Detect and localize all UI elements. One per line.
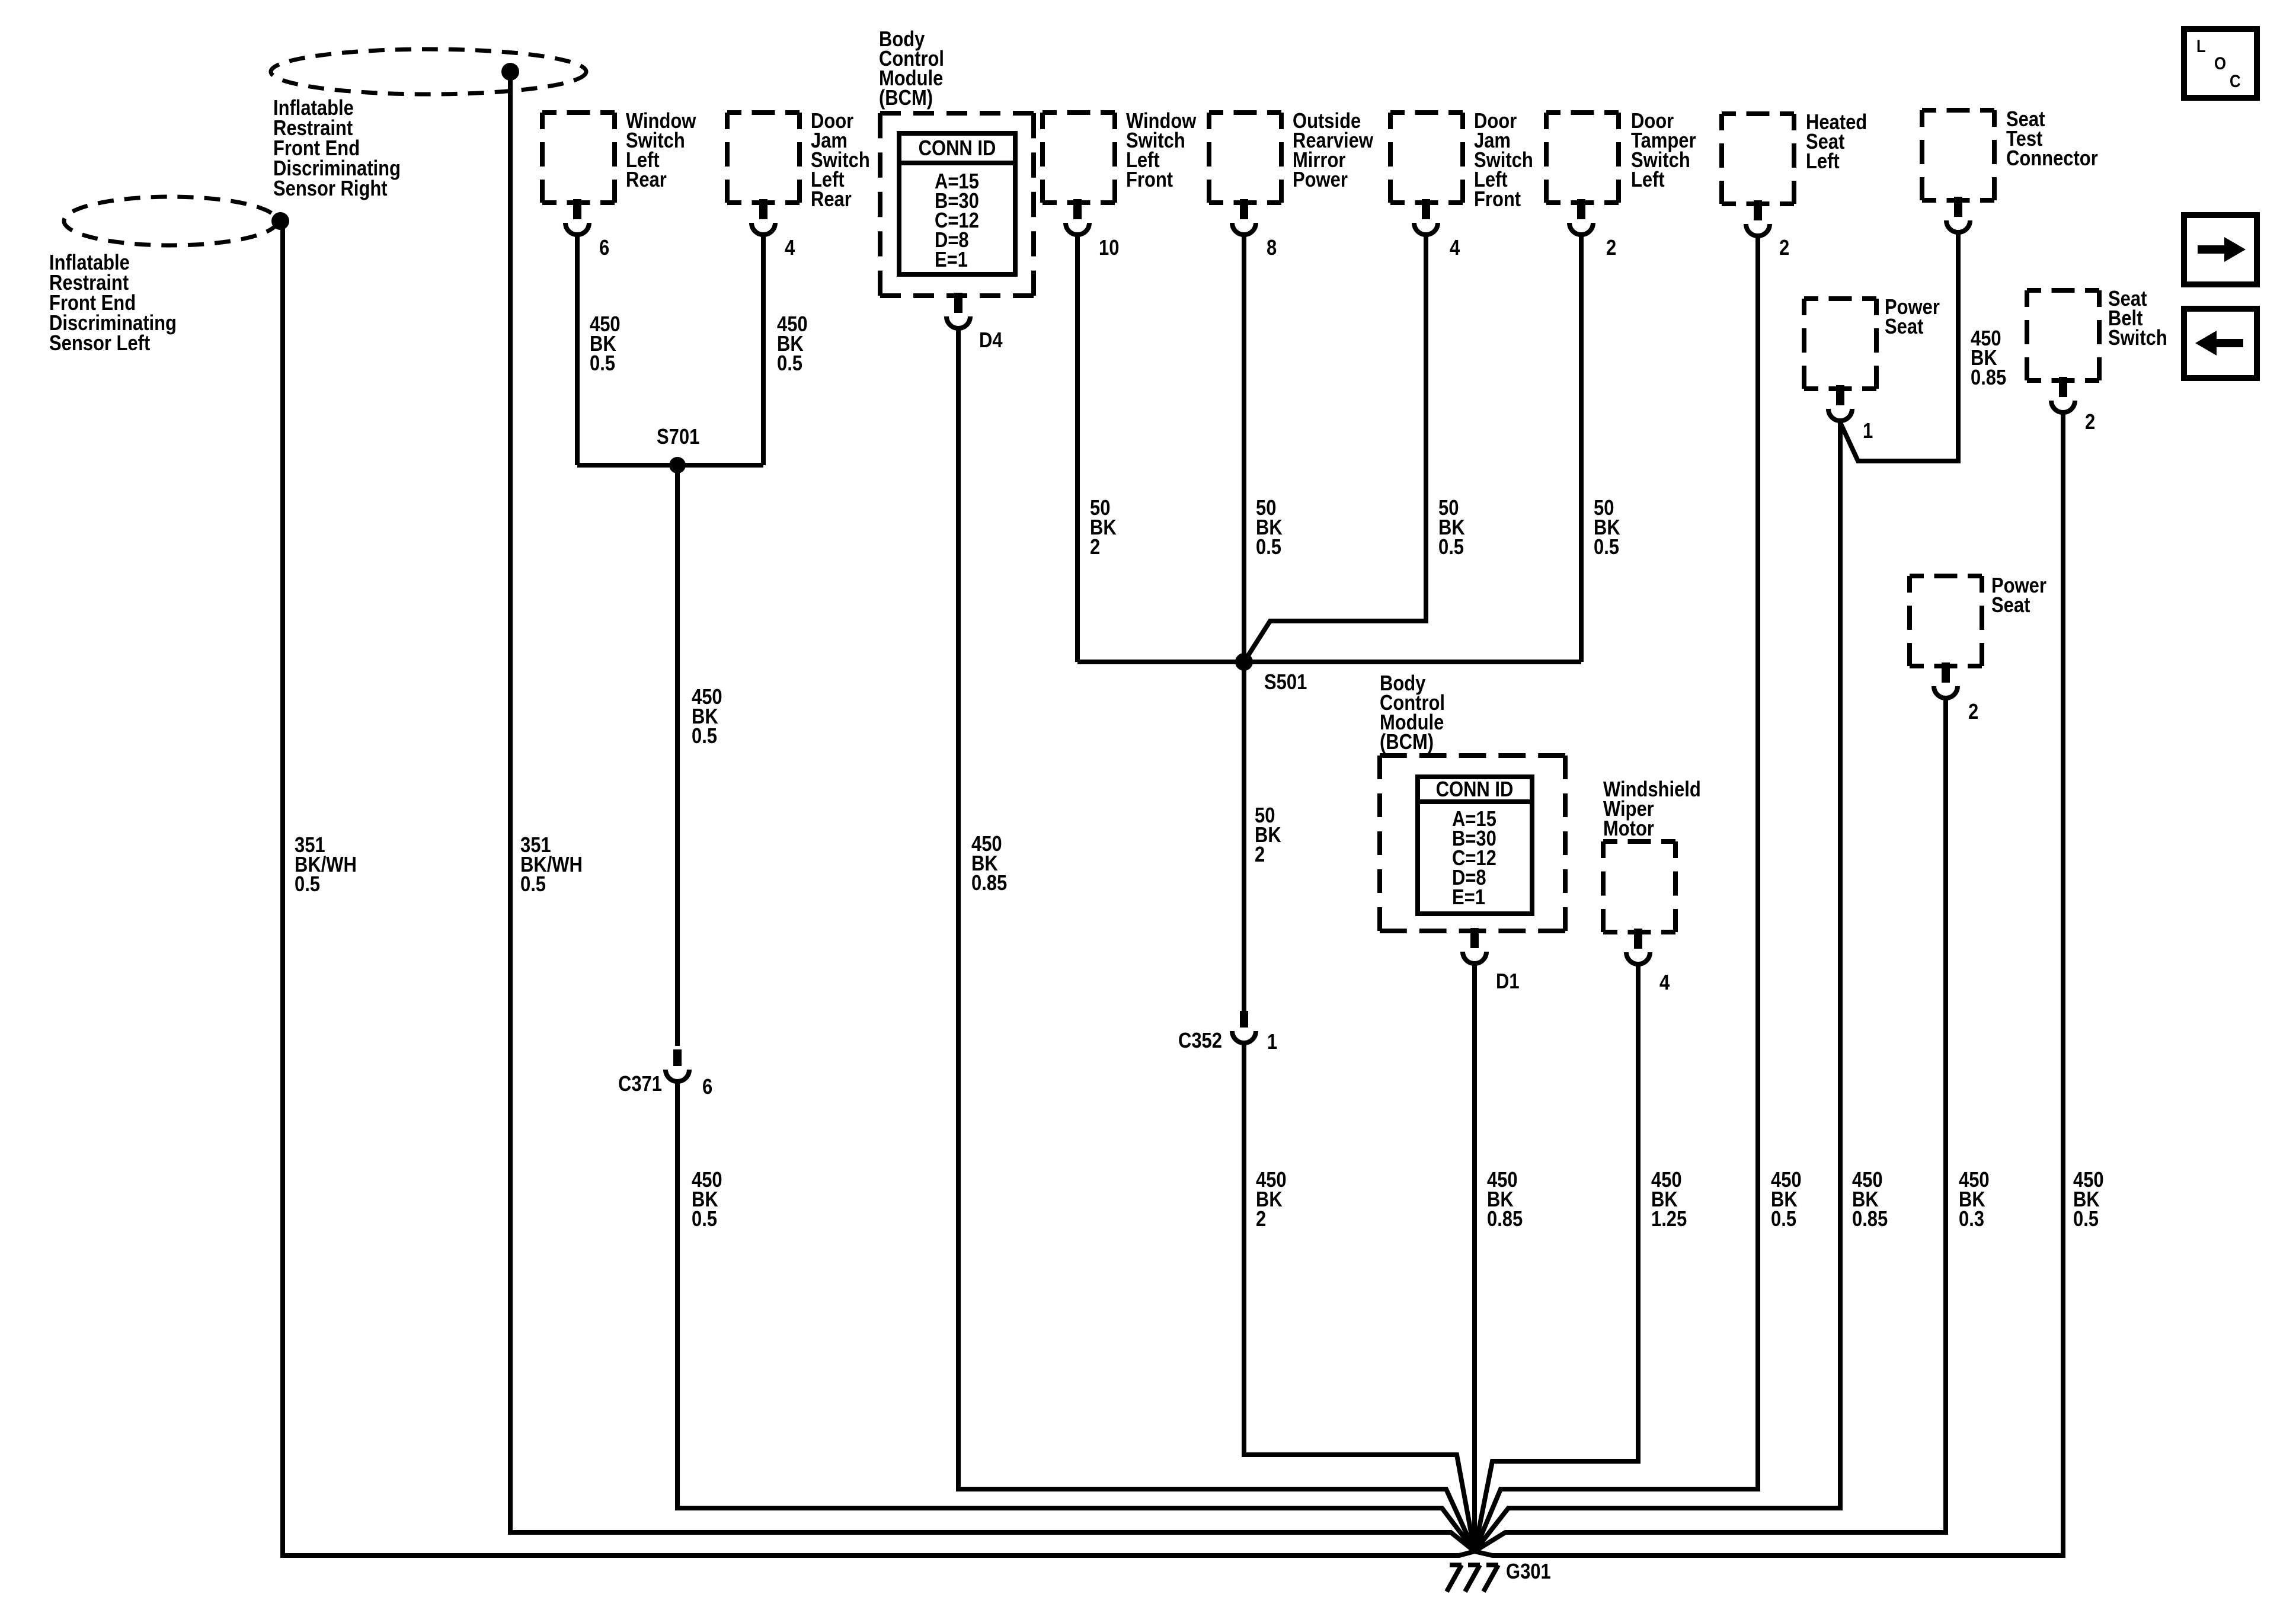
left arrow legend box (2184, 309, 2257, 378)
svg-text:8: 8 (1267, 236, 1277, 260)
svg-text:Front: Front (1126, 168, 1173, 192)
windshield wiper motor dashed box (1603, 841, 1675, 932)
LOC O label (2214, 53, 2226, 73)
wire label 450 BK 0.3 label (1959, 1169, 1990, 1231)
wire label 351 BK/WH 0.5 label (520, 834, 583, 897)
wire 450 BK 0.85 BCM D1 to G301 (1472, 965, 1477, 1551)
wire 450 BK 0.5 door jam switch left rear to S701 (761, 236, 766, 465)
svg-text:2: 2 (1256, 1208, 1266, 1231)
pin 8 label (1267, 236, 1277, 260)
window switch left front label (1126, 110, 1197, 192)
wire label 50 BK 0.5 label (1256, 497, 1283, 559)
svg-text:2: 2 (2085, 411, 2095, 434)
svg-text:6: 6 (599, 236, 609, 260)
pin 10 label (1099, 236, 1119, 260)
wire 450 BK 0.5 S701 to C371 (675, 465, 680, 1046)
svg-text:2: 2 (1606, 236, 1616, 260)
node: sensor left wire tap (271, 212, 289, 230)
svg-text:CONN ID: CONN ID (1436, 778, 1514, 802)
wire 50 BK 2 window switch left front to S501 (1075, 236, 1080, 662)
S501 label (1264, 671, 1307, 694)
svg-text:(BCM): (BCM) (1380, 731, 1434, 754)
outside rearview mirror power dashed box (1209, 113, 1281, 203)
wire 50 BK 0.5 door jam switch left front to S501 (1244, 236, 1426, 662)
seat test connector label (2006, 108, 2098, 171)
svg-text:2: 2 (1090, 536, 1100, 559)
wire 50 BK mirror through S501 to C352 (1242, 236, 1246, 1012)
wire 450 BK 0.5 seat belt switch to G301 (1475, 414, 2063, 1555)
splice S501 (1235, 653, 1253, 671)
seat belt switch label (2108, 287, 2167, 350)
wire 50 BK 0.5 door tamper switch left to S501 (1579, 236, 1584, 662)
BCM #1 CONN ID table (899, 133, 1015, 274)
heated seat left pin connector (1746, 200, 1770, 236)
svg-text:C352: C352 (1178, 1029, 1222, 1053)
wire 450 BK 0.3 power seat lower to G301 (1475, 698, 1946, 1551)
wire label 450 BK 0.85 label (1971, 327, 2006, 390)
node: sensor right wire tap (501, 63, 519, 81)
svg-text:1: 1 (1267, 1030, 1277, 1054)
wire 351 BK/WH 0.5 sensor right to G301 (510, 72, 1475, 1551)
wire label 450 BK 0.85 label (971, 833, 1007, 895)
wire splice bar S501 (1077, 660, 1581, 664)
wire 450 BK 0.5 window switch left rear to S701 (575, 236, 580, 465)
pin D1 label (1496, 970, 1520, 994)
window switch left rear pin connector (565, 199, 589, 235)
BCM #2 CONN ID table (1418, 777, 1532, 914)
G301 label (1506, 1560, 1551, 1584)
seat belt switch pin connector (2051, 377, 2075, 412)
svg-text:C: C (2230, 71, 2241, 91)
svg-text:E=1: E=1 (935, 248, 968, 272)
heated seat left dashed box (1722, 114, 1794, 204)
svg-text:1: 1 (1863, 420, 1873, 443)
door jam switch left rear dashed box (727, 113, 800, 203)
CONN ID values #2 label (1452, 808, 1496, 910)
CONN ID header #1 label (919, 137, 996, 161)
svg-text:0.3: 0.3 (1959, 1208, 1984, 1231)
S701 label (657, 425, 699, 449)
wire 450 BK 0.85 power seat to G301 (1475, 422, 1840, 1551)
svg-text:Switch: Switch (2108, 327, 2167, 350)
power seat (upper) dashed box (1804, 299, 1876, 389)
outside rearview mirror power label (1293, 110, 1374, 192)
svg-text:0.85: 0.85 (1852, 1208, 1888, 1231)
power seat (lower) label (1991, 574, 2046, 617)
splice S701 (669, 457, 686, 473)
wire label 450 BK 0.5 label (2073, 1169, 2104, 1231)
svg-text:Connector: Connector (2006, 147, 2098, 171)
svg-text:Sensor Left: Sensor Left (49, 332, 150, 356)
svg-text:Seat: Seat (1885, 315, 1923, 339)
svg-text:Left: Left (1806, 150, 1840, 174)
windshield wiper motor pin connector (1626, 929, 1650, 964)
pin 1 label (1863, 420, 1873, 443)
wire 450 BK 0.5 heated seat to G301 (1475, 237, 1758, 1551)
C352 label (1178, 1029, 1222, 1053)
BCM #2 pin D1 connector (1463, 928, 1486, 964)
seat test connector pin connector (1946, 197, 1970, 232)
pin 4 label (1450, 236, 1460, 260)
svg-text:0.5: 0.5 (295, 873, 320, 897)
svg-text:6: 6 (702, 1076, 712, 1099)
svg-text:S701: S701 (657, 425, 699, 449)
svg-text:Sensor Right: Sensor Right (273, 177, 388, 201)
inflatable restraint front end discriminating sensor right (dashed ellipse) (271, 49, 586, 94)
door jam switch left rear label (811, 110, 870, 212)
pin 2 label (1779, 236, 1789, 260)
svg-text:0.5: 0.5 (1438, 536, 1464, 559)
svg-text:0.5: 0.5 (1594, 536, 1619, 559)
pin 2 label (1606, 236, 1616, 260)
BCM #2 dashed box (1380, 756, 1565, 931)
heated seat left label (1806, 111, 1867, 174)
power seat (lower) pin connector (1934, 662, 1958, 698)
svg-text:Seat: Seat (1991, 594, 2030, 617)
power seat (upper) label (1885, 296, 1940, 339)
ground G301 (1447, 1565, 1498, 1592)
svg-text:CONN ID: CONN ID (919, 137, 996, 161)
wire label 50 BK 2 label (1090, 497, 1117, 559)
seat belt switch dashed box (2027, 290, 2099, 380)
door tamper switch left dashed box (1546, 113, 1619, 203)
svg-text:Left: Left (1631, 168, 1665, 192)
BCM #1 pin D4 connector (946, 293, 970, 328)
wire label 450 BK 0.5 label (1771, 1169, 1802, 1231)
wire label 450 BK 2 label (1256, 1169, 1287, 1231)
wire label 50 BK 2 label (1255, 804, 1281, 867)
svg-text:0.5: 0.5 (1771, 1208, 1796, 1231)
door jam switch left front label (1474, 110, 1533, 212)
svg-text:2: 2 (1255, 843, 1265, 867)
inflatable restraint front end discriminating sensor left (dashed ellipse) (64, 197, 277, 245)
BCM #1 dashed box (880, 113, 1034, 296)
outside rearview mirror power pin connector (1232, 199, 1256, 235)
connector C371 (673, 1049, 682, 1066)
wire label 450 BK 0.85 label (1487, 1169, 1523, 1231)
wire label 450 BK 0.5 label (590, 313, 621, 376)
svg-text:Rear: Rear (626, 168, 667, 192)
wire label 450 BK 0.5 label (692, 686, 722, 748)
door jam switch left front dashed box (1390, 113, 1463, 203)
power seat (lower) dashed box (1910, 576, 1982, 666)
C371 label (618, 1073, 662, 1096)
pin 2 label (1968, 700, 1978, 724)
power seat (upper) pin connector (1828, 385, 1852, 421)
sensor left label (49, 251, 177, 356)
door tamper switch left pin connector (1569, 199, 1593, 235)
pin 6 label (599, 236, 609, 260)
svg-text:Front: Front (1474, 188, 1521, 212)
svg-text:G301: G301 (1506, 1560, 1551, 1584)
right arrow legend box (2184, 215, 2257, 284)
svg-text:(BCM): (BCM) (879, 87, 933, 110)
svg-text:0.5: 0.5 (692, 725, 717, 748)
wire label 450 BK 0.5 label (777, 313, 808, 376)
body control module (BCM) #2 label (1380, 672, 1445, 754)
wire 450 BK 2 C352 to G301 (1244, 1044, 1475, 1551)
wire 351 BK/WH 0.5 sensor left to G301 (283, 222, 1475, 1555)
wire label 450 BK 0.5 label (692, 1169, 722, 1231)
svg-text:4: 4 (1450, 236, 1460, 260)
svg-text:0.85: 0.85 (1487, 1208, 1523, 1231)
CONN ID values #1 label (935, 170, 979, 272)
svg-text:2: 2 (1779, 236, 1789, 260)
door jam switch left front pin connector (1414, 199, 1438, 235)
svg-text:S501: S501 (1264, 671, 1307, 694)
door tamper switch left label (1631, 110, 1696, 192)
C371 pin 6 label (702, 1076, 712, 1099)
svg-text:1.25: 1.25 (1651, 1208, 1687, 1231)
svg-text:0.5: 0.5 (2073, 1208, 2099, 1231)
wire 450 BK 0.5 C371 to G301 (677, 1083, 1475, 1551)
svg-text:O: O (2214, 53, 2226, 73)
svg-text:D4: D4 (979, 329, 1003, 353)
svg-text:4: 4 (785, 236, 795, 260)
door jam switch left rear pin connector (752, 199, 775, 235)
svg-text:C371: C371 (618, 1073, 662, 1096)
LOC C label (2230, 71, 2241, 91)
window switch left front pin connector (1066, 199, 1089, 235)
svg-text:0.85: 0.85 (971, 872, 1007, 895)
wire label 450 BK 1.25 label (1651, 1169, 1687, 1231)
C352 pin 1 label (1267, 1030, 1277, 1054)
windshield wiper motor label (1603, 778, 1701, 841)
LOC legend box (2184, 29, 2257, 98)
svg-text:L: L (2196, 36, 2206, 56)
svg-text:0.5: 0.5 (520, 873, 546, 897)
wire label 450 BK 0.85 label (1852, 1169, 1888, 1231)
wire label 50 BK 0.5 label (1594, 497, 1620, 559)
svg-text:2: 2 (1968, 700, 1978, 724)
pin 4 label (785, 236, 795, 260)
svg-text:Power: Power (1293, 168, 1348, 192)
wire label 50 BK 0.5 label (1438, 497, 1465, 559)
svg-text:0.5: 0.5 (590, 352, 615, 376)
svg-text:0.5: 0.5 (1256, 536, 1281, 559)
pin D4 label (979, 329, 1003, 353)
wire splice bar S701 (577, 463, 763, 468)
window switch left front dashed box (1043, 113, 1115, 203)
svg-text:10: 10 (1099, 236, 1119, 260)
svg-text:D1: D1 (1496, 970, 1520, 994)
pin 4 label (1659, 971, 1670, 995)
seat test connector dashed box (1922, 110, 1994, 200)
wire 450 BK 0.85 seat test connector to power seat junction (1840, 233, 1958, 461)
pin 2 label (2085, 411, 2095, 434)
svg-text:0.5: 0.5 (692, 1208, 717, 1231)
svg-text:Motor: Motor (1603, 817, 1654, 841)
svg-text:0.5: 0.5 (777, 352, 802, 376)
connector C352 (1240, 1011, 1248, 1028)
svg-text:4: 4 (1659, 971, 1670, 995)
LOC L label (2196, 36, 2206, 56)
body control module (BCM) #1 label (879, 28, 944, 110)
CONN ID header #2 label (1436, 778, 1514, 802)
window switch left rear dashed box (542, 113, 615, 203)
wire label 351 BK/WH 0.5 label (295, 834, 357, 897)
window switch left rear label (626, 110, 696, 192)
svg-text:0.85: 0.85 (1971, 366, 2006, 390)
svg-text:Rear: Rear (811, 188, 852, 212)
wire 450 BK 0.85 BCM D4 to G301 (958, 329, 1475, 1551)
wire 450 BK 1.25 wiper motor to G301 (1475, 965, 1638, 1551)
svg-text:E=1: E=1 (1452, 886, 1485, 910)
sensor right label (273, 97, 401, 201)
